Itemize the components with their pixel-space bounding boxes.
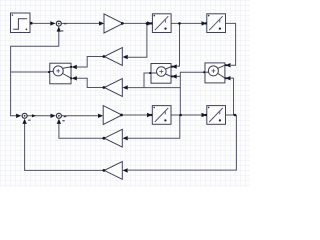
step source block (11, 13, 33, 33)
wire C left port to mid vertical down to int3 wire (180, 72, 205, 115)
wire branch down from int3 wire to Tbup input (128, 115, 180, 138)
sum junction S1 (16, 113, 36, 124)
multiplier A (48, 63, 77, 84)
wire I4 out down right side then left to T-bdown input (128, 115, 236, 170)
wire A.out left (11, 71, 50, 73)
junction dot to B.in1 (178, 22, 181, 25)
integrator I4 (202, 106, 226, 125)
wire G1 to integrator I1 (122, 22, 148, 24)
wire Tbup out left then up into S2 (59, 120, 104, 138)
wire junction to B.in1 down (177, 23, 180, 66)
wire I3 to I4 (171, 114, 203, 116)
wire Tup input from I1 wire down (128, 23, 147, 57)
wire B.out left then down to T-down line (144, 73, 151, 88)
integrator I2 (202, 14, 226, 33)
junction dot I4 out (234, 114, 237, 117)
wire Tup out to A.in1 (77, 57, 105, 68)
wire S1 to S2 (27, 115, 51, 117)
sum junction S2 (51, 113, 67, 124)
multiplier B (149, 64, 176, 84)
wire sum to gain G1 (62, 22, 100, 24)
wire I2 out right then down to C.in1 (225, 23, 235, 65)
junction dot int3 wire (179, 114, 182, 117)
multiplier C (203, 63, 230, 83)
wire I4 out to right junction (225, 114, 236, 116)
sum junction S-top (50, 21, 66, 32)
wire tee to B.in2 (177, 75, 181, 77)
wire Gb3 to I3 (122, 114, 149, 116)
wire Tdown out to A.in2 (77, 78, 105, 87)
integrator I3 (147, 106, 171, 125)
gain T-bdown (left pointing) (103, 162, 128, 180)
wire left vertical down to bottom sum S1 (11, 72, 17, 116)
gain T-down (left pointing) (103, 79, 128, 97)
gain Gb3 (98, 106, 123, 125)
wire Tdown input from mid vertical (128, 87, 181, 89)
wire I1 to I2 (171, 22, 202, 24)
gain T-bup (left pointing) (103, 129, 128, 147)
gain T-up (left pointing) (103, 48, 128, 66)
gain G1 (99, 14, 124, 33)
integrator I1 (147, 14, 171, 33)
wire Tbdown out left then up into S1 (25, 120, 105, 170)
wire right vertical C.in2 down to bottom (231, 78, 234, 115)
wire S2 to gain Gb3 (62, 115, 98, 117)
wire feedback top: A.out up then right then up into sum (11, 31, 59, 72)
wire step to sum (32, 22, 50, 24)
junction dot to Tup (146, 22, 149, 25)
